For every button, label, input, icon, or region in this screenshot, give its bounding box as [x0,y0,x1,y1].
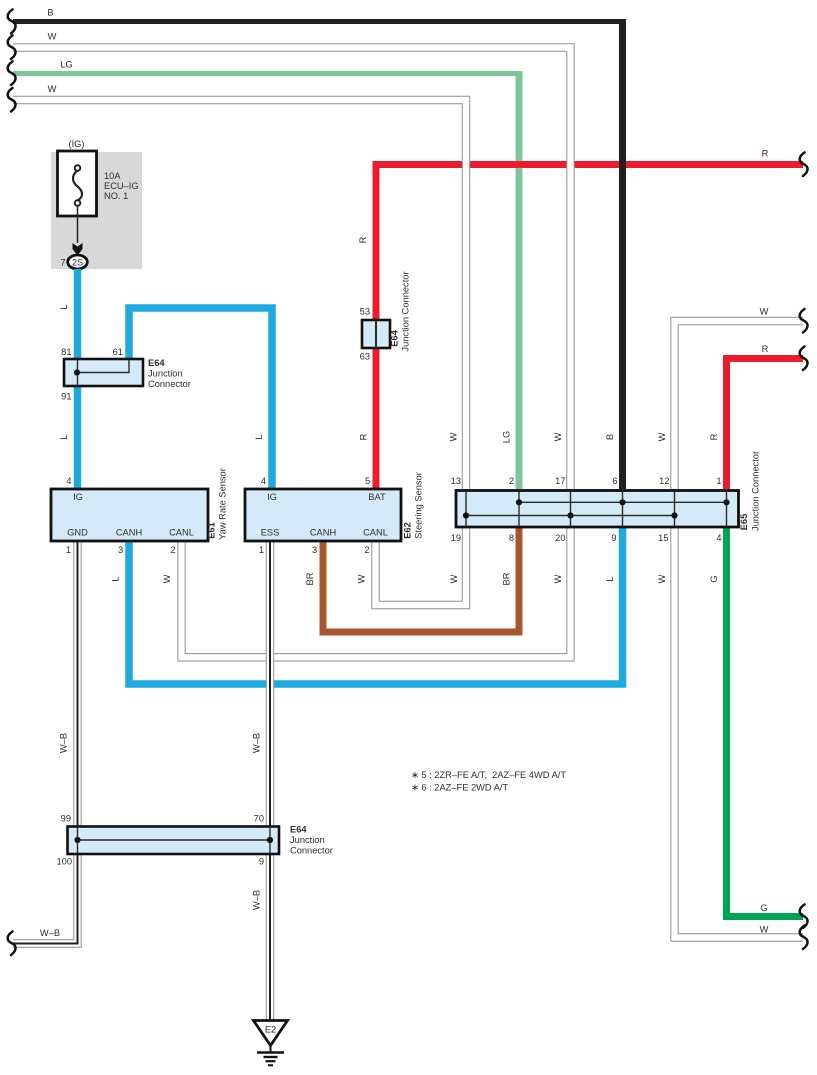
svg-text:E64: E64 [390,329,400,346]
svg-text:G: G [709,575,719,582]
svg-text:15: 15 [658,533,668,543]
svg-text:3: 3 [118,545,123,555]
svg-text:10A: 10A [104,171,121,181]
wire W from E65 pin 19 to E62 CANL [376,528,467,605]
svg-text:GND: GND [67,528,88,538]
junction connector E64 (53/63) [362,320,390,348]
wire G from E65 pin 4 to right edge [727,528,804,917]
svg-text:∗ 5 : 2ZR–FE A/T, 2AZ–FE 4WD: ∗ 5 : 2ZR–FE A/T, 2AZ–FE 4WD A/T [411,770,566,780]
svg-text:2: 2 [364,545,369,555]
svg-text:L: L [254,434,264,439]
svg-text:4: 4 [261,476,266,486]
fuse 10A ECU-IG NO.1 [58,151,139,243]
svg-text:W: W [162,574,172,583]
svg-text:17: 17 [555,476,565,486]
svg-text:1: 1 [716,476,721,486]
svg-text:E61: E61 [207,522,217,539]
svg-text:L: L [605,576,615,581]
connector 2S pin 7 [60,255,87,269]
wire break squiggle LG left [8,62,16,86]
wire L from E65 pin 9 to E61 CANH [129,528,623,684]
wire break squiggle W1 left [8,36,16,60]
svg-text:R: R [762,344,769,354]
svg-text:W–B: W–B [252,733,262,753]
svg-text:Connector: Connector [148,379,191,389]
wire LG vertical to E65 pin 2 [516,71,523,489]
svg-text:B: B [47,8,53,18]
svg-text:NO. 1: NO. 1 [104,191,128,201]
connector E62 steering sensor [245,489,401,541]
svg-text:W: W [657,574,667,583]
svg-text:L: L [111,576,121,581]
svg-text:R: R [709,433,719,440]
svg-text:W: W [760,925,769,935]
wire W right header to E65 pin 12 [675,321,804,489]
svg-text:1: 1 [259,545,264,555]
wire break squiggle B left [8,10,16,34]
svg-text:LG: LG [502,431,512,443]
svg-text:2S: 2S [72,258,83,268]
svg-text:W–B: W–B [252,890,262,910]
svg-text:W: W [48,84,57,94]
wire BR from E65 pin 8 to E62 CANH [323,528,519,632]
svg-text:W: W [657,432,667,441]
svg-text:W: W [449,574,459,583]
svg-text:W–B: W–B [59,733,69,753]
svg-text:81: 81 [61,347,71,357]
svg-text:BAT: BAT [368,492,386,502]
svg-text:IG: IG [73,492,83,502]
wire break squiggle W2 left [8,88,16,112]
svg-text:ESS: ESS [261,528,280,538]
label E64 junction connector (bottom) [290,825,333,856]
wire W-B from E61 GND to ground via E64 [13,541,78,944]
svg-text:R: R [358,236,368,243]
svg-text:CANL: CANL [169,528,194,538]
svg-text:W: W [760,307,769,317]
svg-text:Steering Sensor: Steering Sensor [414,472,424,539]
connector E61 yaw rate sensor [51,489,208,541]
wire break squiggle W right [800,309,808,333]
wire break squiggle W right bottom [800,926,808,950]
svg-text:3: 3 [312,545,317,555]
svg-text:2: 2 [509,476,514,486]
svg-text:L: L [59,304,69,309]
arrow into connector 2S [73,243,83,256]
wire break squiggle W-B left bottom [8,932,16,956]
svg-text:9: 9 [259,857,264,867]
svg-text:L: L [59,434,69,439]
wire W from E65 pin 15 to right edge [675,528,804,938]
svg-text:CANH: CANH [116,528,142,538]
svg-text:Yaw Rate Sensor: Yaw Rate Sensor [218,468,228,540]
svg-text:4: 4 [66,476,71,486]
svg-text:53: 53 [360,307,370,317]
svg-text:19: 19 [451,533,461,543]
svg-text:100: 100 [56,857,72,867]
junction connector E64 (81/61/91) [64,359,143,386]
svg-text:6: 6 [612,476,617,486]
svg-text:70: 70 [254,814,264,824]
svg-text:91: 91 [61,392,71,402]
wire W from E65 pin 20 to E61 CANL [182,528,571,657]
svg-text:E65: E65 [739,514,749,531]
svg-text:ECU–IG: ECU–IG [104,181,139,191]
ground E2 [254,1021,288,1066]
svg-text:2: 2 [170,545,175,555]
svg-text:9: 9 [611,533,616,543]
wire B header to E65 pin 6 [13,19,626,489]
junction connector E64 (99/70/100/9) [68,827,280,855]
wire L from fuse 2S down to E61 IG [74,269,82,489]
svg-text:E2: E2 [265,1025,276,1035]
svg-text:(IG): (IG) [68,139,84,149]
svg-text:W: W [553,432,563,441]
svg-text:W: W [357,574,367,583]
svg-text:Connector: Connector [290,846,333,856]
svg-text:1: 1 [66,545,71,555]
svg-text:BR: BR [502,572,512,585]
label E64 junction connector [148,358,191,389]
svg-text:Junction: Junction [290,835,325,845]
svg-text:20: 20 [555,533,565,543]
wire LG header horizontal [13,71,523,76]
svg-text:CANH: CANH [310,528,336,538]
wire break squiggle R right mid [800,347,808,371]
svg-text:E62: E62 [403,522,413,539]
svg-text:61: 61 [113,347,123,357]
svg-text:W–B: W–B [40,928,60,938]
svg-text:7: 7 [60,258,65,268]
svg-text:W: W [449,432,459,441]
wire break squiggle G right [800,905,808,929]
svg-text:Junction Connector: Junction Connector [751,451,761,531]
svg-text:IG: IG [267,492,277,502]
svg-text:CANL: CANL [363,528,388,538]
svg-text:99: 99 [61,814,71,824]
svg-text:5: 5 [365,476,370,486]
svg-text:E64: E64 [290,825,307,835]
svg-text:R: R [359,433,369,440]
wire R battery feed from right edge down to junction E64 [376,165,803,321]
svg-text:Junction Connector: Junction Connector [401,271,411,351]
wire R from junction E64 down to E62 BAT [373,348,380,489]
svg-text:G: G [760,903,767,913]
wire W header 1 to E65 pin 17 [13,48,571,490]
svg-text:4: 4 [716,533,721,543]
svg-text:B: B [605,434,615,440]
svg-text:12: 12 [659,476,669,486]
junction connector E65 [456,491,739,528]
svg-text:W: W [553,574,563,583]
svg-text:8: 8 [509,533,514,543]
fuse holder gray panel [51,152,142,269]
svg-text:Junction: Junction [148,369,183,379]
svg-text:E64: E64 [148,358,165,368]
svg-text:W: W [48,32,57,42]
svg-text:LG: LG [60,60,72,70]
wire R right header to E65 pin 1 [727,359,804,490]
svg-text:13: 13 [451,476,461,486]
wire break squiggle R right top [800,153,808,177]
svg-text:R: R [762,149,769,159]
wire W-B from E62 ESS to ground E2 via E64 [266,541,274,1020]
wire W header 2 to E65 pin 13 [13,100,466,489]
svg-text:∗ 6 : 2AZ–FE 2WD A/T: ∗ 6 : 2AZ–FE 2WD A/T [411,783,508,793]
wire L branch from E64 pin 61 to E62 IG [129,308,272,489]
svg-text:BR: BR [305,572,315,585]
svg-text:63: 63 [360,352,370,362]
